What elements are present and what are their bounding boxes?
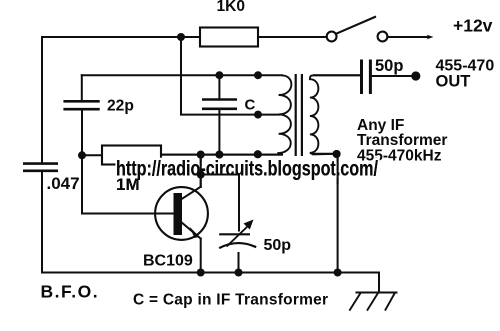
node transformer top-left tap: [254, 71, 262, 79]
svg-text:1M: 1M: [116, 175, 140, 194]
node C cap / rail3 (redraw): [215, 151, 223, 159]
transformer T1 secondary winding: [310, 75, 361, 154]
node transformer bottom-left tap (redraw): [254, 150, 262, 158]
svg-text:+12v: +12v: [453, 16, 493, 36]
wire collector vertical: [200, 155, 202, 187]
capacitor 22p: [63, 101, 99, 109]
node collector / varicap branch (redraw): [197, 171, 205, 179]
capacitor C (internal): [202, 100, 237, 109]
wire 22p top lead: [81, 75, 83, 100]
wire bottom rail: [42, 171, 379, 293]
svg-text:http://radio-circuits.blogspot: http://radio-circuits.blogspot.com/: [116, 157, 378, 181]
ground: [349, 293, 397, 311]
node collector / rail3: [197, 151, 205, 159]
wire collector diagonal: [182, 187, 201, 199]
node collector / rail3 (redraw): [197, 151, 205, 159]
wire transformer right bottom vertical: [337, 154, 339, 273]
wire base branch: [82, 155, 174, 213]
node OUT terminal: [411, 71, 420, 80]
transistor Q1 BC109: [155, 187, 208, 240]
wire left rail: [41, 37, 43, 163]
switch S1: [327, 17, 388, 42]
node transformer bottom-right tap (redraw): [333, 150, 341, 158]
wire varicap branch over watermark: [201, 175, 239, 183]
wire right vertical over watermark: [337, 154, 339, 183]
wire varicap branch horizontal: [201, 174, 239, 176]
svg-text:.047: .047: [47, 174, 80, 193]
node C cap / rail3: [215, 151, 223, 159]
svg-text:OUT: OUT: [436, 73, 471, 91]
svg-text:BC109: BC109: [143, 253, 193, 270]
node top rail / R 1K0 left: [177, 33, 185, 41]
wire rail3 over watermark: [161, 154, 282, 156]
transformer T1 primary winding: [277, 75, 291, 153]
wire collector vertical over watermark: [200, 155, 202, 187]
transformer T1 core: [295, 74, 297, 156]
wire resistor to switch: [258, 36, 327, 38]
wire rail2 22p corner to transformer top tap: [82, 74, 282, 76]
wire 50p output left lead: [314, 74, 361, 76]
node 22p / 1M / base: [78, 151, 86, 159]
wire 50p output right lead: [370, 75, 415, 77]
node right vertical / bottom rail: [334, 269, 342, 277]
wire varicap top lead: [238, 175, 240, 231]
wire 22p bottom lead: [81, 111, 83, 156]
node transformer mid tap: [254, 111, 262, 119]
wire emitter diagonal tail: [182, 223, 201, 239]
node collector / varicap branch: [197, 171, 205, 179]
variable capacitor 50p: [219, 226, 256, 249]
svg-text:22p: 22p: [107, 97, 134, 114]
wire 1K0 junction down to mid tap: [181, 37, 279, 115]
node transformer bottom-right tap: [333, 150, 341, 158]
node rail2 / C cap: [215, 71, 223, 79]
node varicap / bottom rail: [235, 269, 243, 277]
wire switch to +12v: [388, 36, 430, 38]
resistor 1M: [102, 146, 161, 165]
wire transformer bottom-right tap over watermark: [313, 153, 337, 155]
wire C cap top lead: [218, 75, 220, 98]
wire rail3 right segment: [161, 154, 282, 156]
wire rail3 left segment: [82, 154, 102, 156]
wire emitter vertical: [200, 239, 202, 273]
svg-text:C: C: [245, 97, 256, 114]
node emitter / bottom rail: [197, 269, 205, 277]
wire C cap bottom lead: [218, 110, 220, 155]
svg-text:C = Cap in IF Transformer: C = Cap in IF Transformer: [133, 292, 328, 309]
node transformer bottom-left tap: [254, 150, 262, 158]
resistor 1K0: [200, 28, 258, 47]
capacitor 50p output: [362, 60, 371, 95]
wire varicap bottom lead: [238, 253, 240, 273]
capacitor .047: [23, 164, 58, 171]
arrowhead +12v: [427, 35, 434, 40]
svg-text:B.F.O.: B.F.O.: [41, 282, 100, 302]
svg-text:50p: 50p: [375, 57, 403, 75]
svg-text:1K0: 1K0: [217, 0, 245, 15]
wire top rail left: [42, 36, 200, 38]
svg-text:50p: 50p: [264, 237, 292, 254]
